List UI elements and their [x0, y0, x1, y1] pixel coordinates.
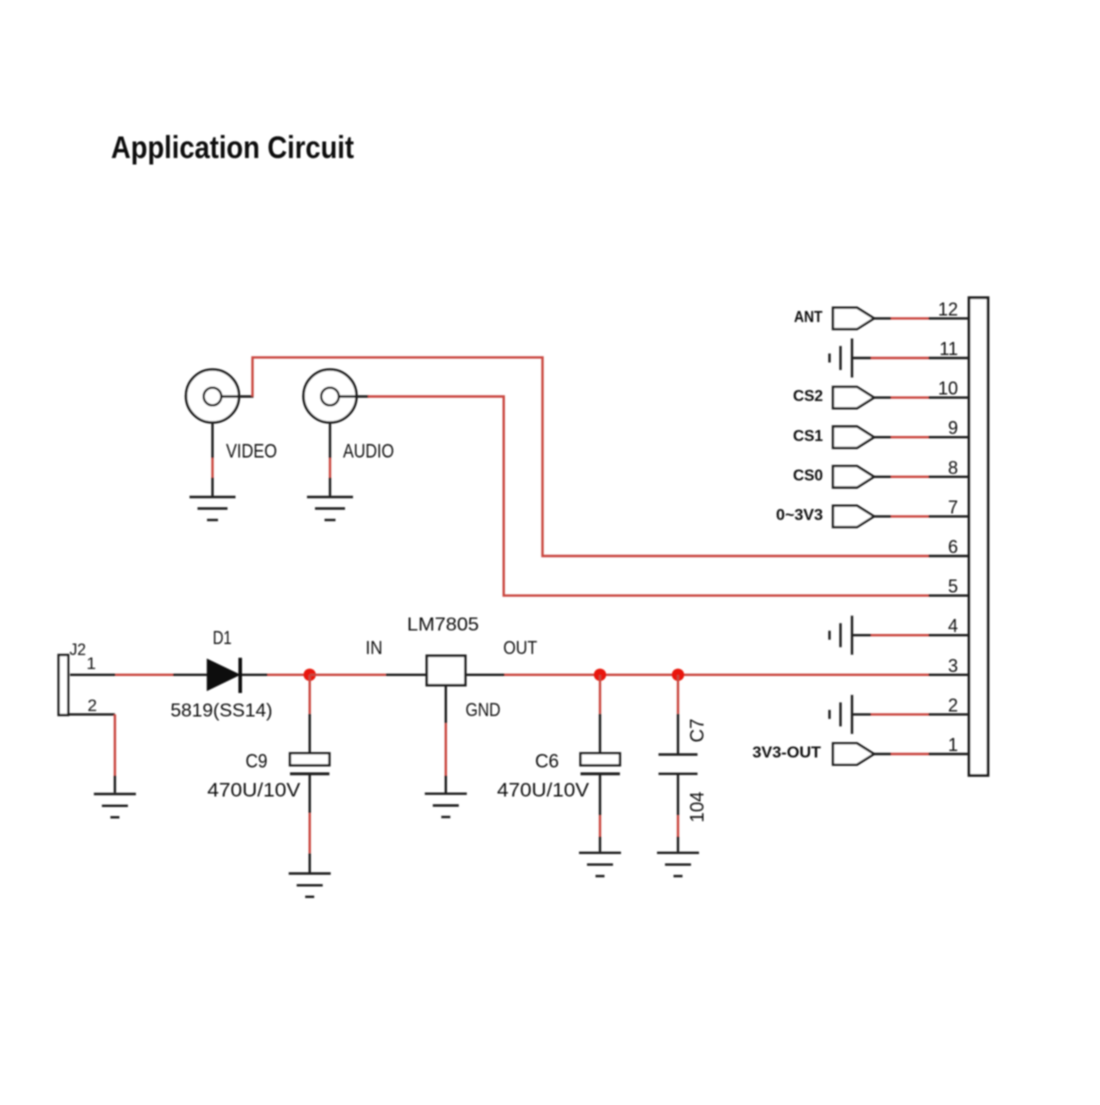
svg-text:C7: C7	[688, 719, 709, 743]
node junction C6	[594, 669, 606, 681]
svg-text:D1: D1	[213, 628, 232, 648]
svg-text:GND: GND	[466, 700, 501, 720]
wire C7 top lead	[677, 714, 679, 754]
connector VIDEO center pin	[204, 388, 222, 406]
ground below C9	[289, 874, 331, 897]
wire AUDIO net to pin 5 (red)	[368, 397, 929, 596]
svg-text:ANT: ANT	[794, 309, 823, 326]
svg-text:1: 1	[87, 654, 96, 673]
svg-text:0~3V3: 0~3V3	[776, 507, 823, 524]
flag ANT	[833, 308, 874, 329]
wire pin 9 stub	[929, 436, 970, 438]
wire VIDEO ground stem red segment	[211, 458, 213, 478]
svg-text:12: 12	[938, 299, 958, 319]
node junction C7	[672, 669, 684, 681]
wire VIDEO ground stem	[211, 423, 213, 459]
ground at pin 2	[830, 695, 853, 734]
svg-text:C6: C6	[535, 752, 559, 773]
svg-text:IN: IN	[366, 638, 383, 658]
svg-text:470U/10V: 470U/10V	[497, 781, 589, 802]
svg-text:OUT: OUT	[503, 638, 537, 658]
wire pin 2	[852, 713, 871, 715]
svg-text:CS1: CS1	[793, 428, 823, 445]
wire C6 top lead red	[599, 675, 601, 714]
wire C9 bottom lead lower	[309, 853, 311, 872]
svg-text:LM7805: LM7805	[407, 614, 479, 635]
capacitor C7 plate 2	[659, 773, 698, 775]
svg-text:1: 1	[948, 735, 958, 755]
wire VIDEO net to pin 6 (red)	[253, 357, 929, 556]
flag CS1	[833, 427, 874, 448]
ground at pin 11	[830, 339, 853, 378]
wire pin 7 stub	[929, 515, 970, 517]
wire pin 1	[874, 753, 891, 755]
wire pin 4	[852, 634, 871, 636]
wire pin 6 black stub	[929, 555, 970, 557]
wire C6 top lead	[599, 714, 601, 754]
capacitor C6 negative plate	[581, 772, 620, 775]
wire regulator GND lead	[445, 685, 447, 723]
svg-text:8: 8	[948, 458, 958, 478]
svg-text:3V3-OUT: 3V3-OUT	[752, 745, 821, 762]
flag CS0	[833, 466, 874, 487]
svg-text:CS2: CS2	[793, 388, 823, 405]
wire C9 top lead red	[309, 675, 311, 714]
wire C7 bottom lead red segment	[677, 815, 679, 836]
wire pin 10	[874, 396, 891, 398]
wire rail red segment 3	[310, 674, 386, 676]
svg-text:104: 104	[688, 791, 709, 822]
wire VIDEO ground stem lower	[211, 478, 213, 497]
connector AUDIO outer ring	[304, 370, 357, 423]
wire pin 11	[852, 357, 871, 359]
wire C7 bottom lead	[677, 774, 679, 816]
wire pin 10 stub	[929, 396, 970, 398]
wire J2 pin2 red segment	[114, 714, 116, 775]
wire regulator GND lead lower	[445, 776, 447, 793]
wire C9 bottom lead red segment	[309, 813, 311, 853]
flag 0~3V3	[833, 506, 874, 527]
diode D1 triangle	[207, 659, 239, 690]
wire rail red segment 2	[268, 674, 310, 676]
svg-text:C9: C9	[246, 752, 268, 773]
svg-text:2: 2	[948, 695, 958, 715]
wire regulator OUT	[465, 674, 504, 676]
svg-text:2: 2	[88, 696, 97, 715]
wire rail red segment 4	[505, 674, 929, 676]
wire pin 8 stub	[929, 476, 970, 478]
svg-text:10: 10	[938, 379, 958, 399]
wire J2 pin2 lower	[114, 776, 116, 793]
svg-text:J2: J2	[70, 640, 87, 659]
wire pin 1 stub	[929, 753, 970, 755]
ground below J2	[94, 794, 136, 817]
capacitor C6 positive plate	[581, 753, 620, 765]
svg-text:CS0: CS0	[793, 467, 823, 484]
ground below VIDEO	[190, 497, 236, 520]
wire AUDIO ground stem red segment	[329, 458, 331, 478]
wire C6 bottom lead red segment	[599, 815, 601, 836]
wire C7 top lead red	[677, 675, 679, 714]
wire pin 1 red segment	[891, 753, 929, 755]
capacitor C9 positive plate	[290, 753, 329, 765]
regulator U1 LM7805 body	[427, 656, 466, 685]
wire pin 5 black stub	[929, 594, 970, 596]
svg-text:9: 9	[948, 418, 958, 438]
wire pin 9	[874, 436, 891, 438]
wire pin 2 stub	[929, 713, 970, 715]
svg-text:3: 3	[948, 656, 958, 676]
wire AUDIO pin stub	[339, 395, 369, 397]
wire pin 11 red segment	[871, 357, 929, 359]
wire AUDIO ground stem lower	[329, 478, 331, 497]
wire to diode anode	[173, 674, 208, 676]
wire C9 bottom lead	[309, 775, 311, 813]
wire pin 12 stub	[929, 317, 970, 319]
wire diode cathode out	[242, 674, 268, 676]
svg-text:7: 7	[948, 497, 958, 517]
wire pin 4 red segment	[871, 634, 929, 636]
wire to regulator IN	[386, 674, 427, 676]
svg-text:5819(SS14): 5819(SS14)	[171, 700, 273, 720]
node junction C9	[304, 669, 316, 681]
svg-text:6: 6	[948, 537, 958, 557]
capacitor C7 plate 1	[659, 753, 698, 755]
capacitor C9 negative plate	[290, 772, 329, 775]
wire pin 8 red segment	[891, 476, 929, 478]
flag CS2	[833, 387, 874, 408]
ground below C7	[657, 853, 699, 876]
wire pin 7	[874, 515, 891, 517]
wire pin 3 stub	[929, 674, 970, 676]
wire J2 pin2	[68, 713, 115, 715]
svg-text:VIDEO: VIDEO	[226, 442, 277, 463]
wire pin 8	[874, 476, 891, 478]
wire pin 12 red segment	[891, 317, 929, 319]
svg-text:5: 5	[948, 577, 958, 597]
connector J1 12-pin header body	[969, 298, 988, 776]
ground at pin 4	[830, 616, 853, 655]
diode D1 cathode bar	[238, 658, 242, 693]
wire J2 pin1	[70, 674, 115, 676]
wire C6 bottom lead	[599, 775, 601, 815]
connector J2 body	[59, 655, 69, 715]
ground below AUDIO	[307, 497, 353, 520]
connector VIDEO outer ring	[186, 370, 239, 423]
wire pin 2 red segment	[871, 713, 929, 715]
wire pin 7 red segment	[891, 515, 929, 517]
wire rail red segment 1	[115, 674, 173, 676]
wire AUDIO ground stem	[329, 423, 331, 459]
flag 3V3-OUT	[833, 743, 874, 764]
svg-text:Application Circuit: Application Circuit	[111, 129, 354, 165]
svg-text:11: 11	[939, 339, 958, 359]
svg-text:AUDIO: AUDIO	[343, 442, 394, 463]
wire C9 top lead	[309, 714, 311, 754]
wire pin 10 red segment	[891, 396, 929, 398]
wire C7 bottom lead lower	[677, 837, 679, 852]
wire pin 9 red segment	[891, 436, 929, 438]
svg-text:4: 4	[948, 616, 958, 636]
ground below C6	[579, 853, 621, 876]
wire regulator GND lead red segment	[445, 723, 447, 775]
wire C6 bottom lead lower	[599, 837, 601, 852]
wire pin 12	[874, 317, 891, 319]
connector AUDIO center pin	[321, 388, 339, 406]
wire VIDEO pin stub	[222, 395, 254, 397]
ground below regulator	[425, 794, 467, 817]
wire pin 11 stub	[929, 357, 970, 359]
svg-text:470U/10V: 470U/10V	[207, 781, 300, 802]
wire pin 4 stub	[929, 634, 970, 636]
